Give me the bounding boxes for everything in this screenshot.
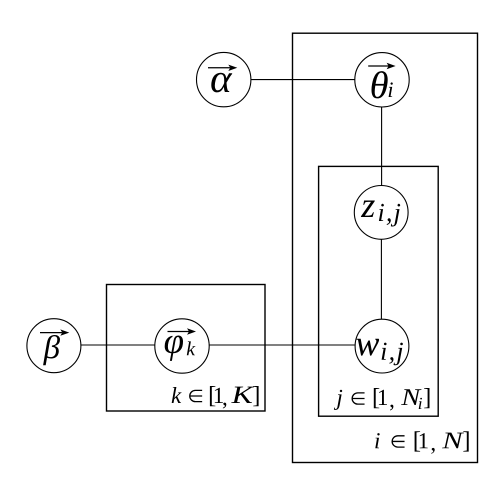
wire alpha-theta bbox=[251, 79, 355, 81]
wire z-w bbox=[380, 239, 382, 319]
node z_ij bbox=[354, 186, 408, 240]
node beta (vector beta) bbox=[27, 319, 81, 373]
node alpha (vector alpha) bbox=[197, 52, 251, 106]
plate i (outer), i in [1,N] bbox=[293, 33, 478, 462]
wire phi-w bbox=[209, 344, 355, 346]
node w_ij bbox=[355, 319, 409, 373]
plate k, k in [1,K] bbox=[107, 285, 266, 412]
node theta_i (vector theta_i) bbox=[355, 53, 409, 107]
label i in [1,N] bbox=[375, 431, 468, 454]
wire beta-phi bbox=[81, 344, 155, 346]
wire theta-z bbox=[381, 107, 383, 186]
label j in [1,N_i] bbox=[334, 388, 430, 411]
label k in [1,K] bbox=[172, 386, 259, 409]
node phi_k (vector phi_k) bbox=[155, 319, 209, 373]
plate j (inner), j in [1,N_i] bbox=[319, 166, 439, 416]
